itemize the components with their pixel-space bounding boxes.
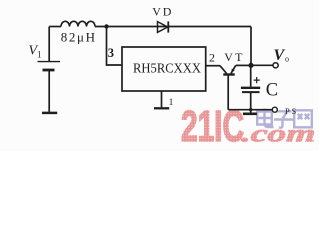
svg-text:1: 1 <box>37 50 42 60</box>
wire VT base lead down <box>227 75 229 110</box>
node A junction dot after inductor <box>104 24 108 28</box>
svg-text:C: C <box>266 81 278 101</box>
svg-text:VT: VT <box>224 50 244 64</box>
transistor VT emitter diagonal <box>231 65 236 73</box>
battery V1 bottom plate <box>43 69 55 72</box>
wire top rail left segment <box>49 26 61 28</box>
svg-text:PS: PS <box>285 106 298 116</box>
terminal Vo open circle <box>273 63 278 68</box>
wire base node to PS terminal <box>228 109 272 111</box>
transistor VT collector diagonal <box>220 66 227 74</box>
wire battery bottom lead <box>48 70 50 112</box>
IC U1 RH5RCXXX box <box>122 47 206 91</box>
svg-text:3: 3 <box>108 46 114 60</box>
wire junction vertical to pin 3 <box>107 27 123 66</box>
svg-text:82μH: 82μH <box>61 29 97 44</box>
wire capacitor bottom lead <box>250 93 252 113</box>
capacitor C bottom plate <box>242 91 260 93</box>
watermark CJK dianzi wang <box>257 109 312 128</box>
ground bar capacitor <box>243 113 257 116</box>
char wang <box>294 110 312 127</box>
diode VD triangle <box>158 22 168 33</box>
svg-text:RH5RCXXX: RH5RCXXX <box>133 62 201 77</box>
inductor L 82uH <box>61 21 95 26</box>
capacitor C plus sign <box>254 77 260 83</box>
capacitor C top plate <box>241 87 260 89</box>
wire battery top lead <box>48 27 50 62</box>
node B junction dot output <box>248 63 253 68</box>
wire capacitor top lead <box>250 65 252 86</box>
battery V1 top plate <box>38 61 61 63</box>
node C junction dot PS wire <box>249 108 252 111</box>
svg-text:VD: VD <box>152 5 173 19</box>
terminal PS open circle <box>272 107 277 112</box>
wire rail right descent <box>250 27 252 66</box>
char dian <box>257 109 273 128</box>
svg-text:.com: .com <box>241 120 317 147</box>
svg-text:1: 1 <box>169 98 174 108</box>
svg-text:2: 2 <box>209 51 215 65</box>
transistor VT base bar <box>223 73 234 75</box>
ground bar battery <box>42 112 57 115</box>
diode VD cathode bar <box>167 21 169 32</box>
svg-text:o: o <box>285 55 289 64</box>
transistor VT emitter arrow <box>231 69 235 74</box>
wire IC pin 1 lead <box>161 91 163 107</box>
svg-text:V: V <box>274 47 286 64</box>
ground bar IC pin 1 <box>154 107 169 109</box>
char zi <box>274 111 293 127</box>
wire VT to node <box>236 64 251 66</box>
wire pin 2 stub <box>206 65 220 67</box>
wire top rail middle segment <box>95 26 251 28</box>
wire node to Vo terminal <box>251 64 273 66</box>
